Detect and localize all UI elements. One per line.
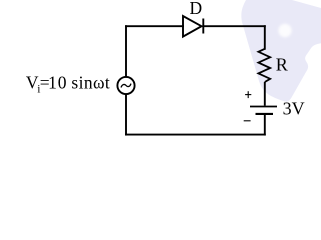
wire: top side, left corner to diode anode xyxy=(126,25,183,27)
diode D cathode bar xyxy=(202,19,204,34)
resistor R zigzag xyxy=(258,49,270,82)
svg-text:R: R xyxy=(276,55,288,75)
battery plus sign xyxy=(245,91,251,98)
wire: right side, top corner to resistor xyxy=(264,26,266,49)
svg-text:sinωt: sinωt xyxy=(71,73,110,93)
battery positive plate (long) xyxy=(250,106,277,108)
wire: left side, source bottom to bottom corner xyxy=(125,94,127,134)
AC source V1 circle xyxy=(117,77,134,94)
wire: bottom side xyxy=(126,134,265,136)
AC source sine symbol xyxy=(121,84,131,87)
diode D triangle (anode) xyxy=(183,16,202,37)
battery minus sign xyxy=(244,120,251,122)
wire: right side, battery negative plate to bottom corner xyxy=(264,115,266,134)
battery negative plate (short) xyxy=(256,113,274,115)
wire: right side, resistor to battery positive plate xyxy=(264,82,266,106)
wire: top side, diode cathode to right corner xyxy=(203,25,264,27)
watermark logo xyxy=(241,0,321,102)
svg-text:3V: 3V xyxy=(283,99,305,119)
svg-text:1: 1 xyxy=(48,73,57,93)
wire: left side, top corner to source top xyxy=(125,26,127,76)
svg-text:0: 0 xyxy=(58,73,67,93)
watermark hole xyxy=(278,24,291,37)
svg-text:D: D xyxy=(190,0,203,18)
